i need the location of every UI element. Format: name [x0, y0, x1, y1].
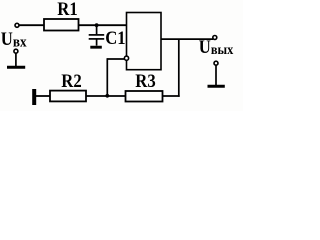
ground bar under C1	[90, 46, 102, 49]
node junction at C1 tap	[95, 23, 99, 27]
wire feedback right vertical	[178, 39, 180, 97]
svg-text:R3: R3	[135, 70, 155, 91]
wire feedback vertical	[106, 58, 108, 96]
wire R2 to R3	[86, 95, 126, 97]
label U vyx	[199, 36, 234, 57]
svg-text:R2: R2	[61, 70, 81, 91]
label R1	[57, 0, 77, 19]
input terminal (top)	[15, 23, 19, 27]
output lower terminal	[214, 61, 218, 65]
input lower terminal	[14, 49, 18, 53]
ground chassis bar at R2	[32, 89, 36, 105]
op-amp U1 (amplifier block)	[127, 13, 162, 70]
wire bar to R2	[36, 95, 50, 97]
output terminal (top)	[213, 36, 217, 40]
wire input to R1	[20, 24, 45, 26]
label R2	[61, 70, 81, 91]
wire output	[161, 38, 213, 40]
label R3	[135, 70, 155, 91]
resistor R3	[126, 91, 163, 102]
wire R1 to amplifier	[79, 24, 127, 26]
svg-text:R1: R1	[57, 0, 77, 19]
resistor R2	[50, 91, 86, 102]
svg-text:C1: C1	[105, 27, 125, 48]
capacitor C1 top plate	[89, 34, 105, 36]
capacitor C1 bottom plate	[89, 38, 105, 40]
wire R3 to feedback corner	[163, 95, 180, 97]
ground bar input	[7, 66, 25, 69]
wire C1 lower stub	[96, 40, 98, 46]
wire feedback horizontal	[107, 58, 124, 60]
ground bar output	[208, 85, 225, 88]
pin inverting input circle	[124, 56, 128, 60]
label C1	[105, 27, 125, 48]
wire output lower terminal to ground	[215, 65, 217, 85]
resistor R1	[44, 19, 79, 31]
wire C1 upper stub	[96, 25, 98, 34]
wire input lower terminal to ground	[15, 53, 17, 66]
node junction at R2-R3	[105, 94, 109, 98]
label U vx	[1, 28, 27, 50]
